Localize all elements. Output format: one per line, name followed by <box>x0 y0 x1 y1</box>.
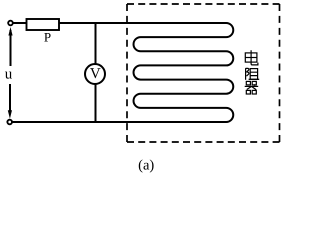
wire top: terminal to resistor P <box>12 22 27 24</box>
svg-text:(a): (a) <box>138 157 154 173</box>
dashed enclosure box right edge <box>279 4 281 142</box>
serpentine heating element with top and bottom wires <box>12 23 234 122</box>
label 器 (qi) drawn strokes <box>245 81 259 94</box>
u arrow upper head (points up at terminal) <box>8 27 12 36</box>
label 电 (dian) drawn strokes <box>245 50 258 65</box>
voltmeter V circle <box>85 64 105 84</box>
terminal top-left <box>8 21 13 26</box>
voltmeter branch wire bottom <box>95 84 97 122</box>
u arrow lower head (points down at terminal) <box>8 110 12 119</box>
terminal bottom-left <box>7 120 12 125</box>
svg-text:P: P <box>44 30 51 45</box>
u arrow upper line <box>10 30 12 66</box>
voltmeter branch wire top <box>95 23 97 64</box>
svg-text:u: u <box>5 67 13 83</box>
label 阻 (zu) drawn strokes <box>246 68 260 80</box>
dashed enclosure box left edge <box>126 4 128 142</box>
dashed enclosure box bottom edge <box>127 141 280 143</box>
resistor P body <box>27 19 60 30</box>
u arrow lower line <box>9 84 11 114</box>
svg-text:V: V <box>90 66 101 82</box>
dashed enclosure box top edge <box>127 3 280 5</box>
